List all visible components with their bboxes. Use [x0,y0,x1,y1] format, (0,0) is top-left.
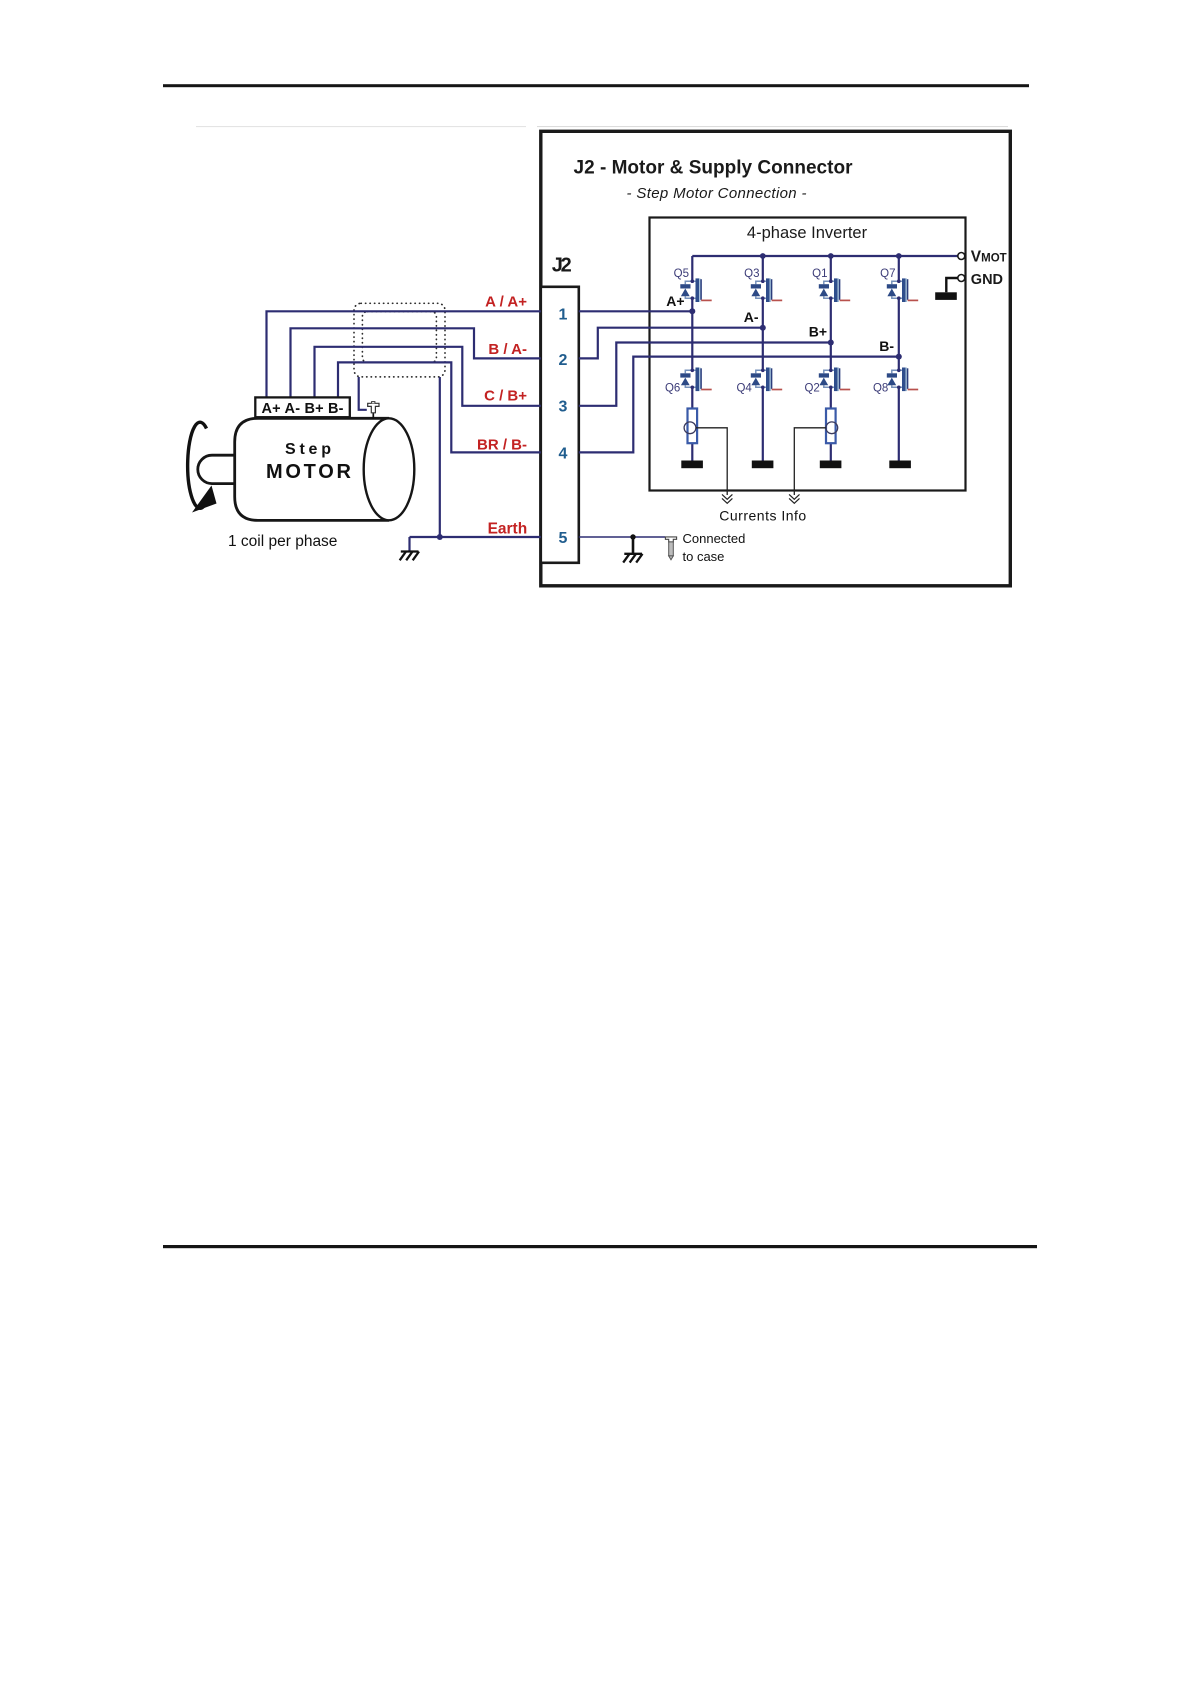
node B- [896,354,902,360]
wire pin5 to case [579,536,665,538]
wire BR/B- motor to pin4 [338,362,541,452]
svg-text:1: 1 [559,307,568,324]
wire pin1 to A+ node [579,310,693,312]
svg-text:Q8: Q8 [873,383,888,395]
arrow left [722,494,732,503]
svg-text:Q5: Q5 [674,268,689,280]
rail junction Q3 [760,253,766,259]
column Q7/Q8 [898,256,900,461]
svg-text:5: 5 [559,530,568,547]
svg-text:A / A+: A / A+ [485,294,527,311]
svg-text:Q7: Q7 [880,268,895,280]
sense resistor R2 (under Q2) [826,409,836,444]
node B+ [828,340,834,346]
ground bar Q4 [752,461,774,469]
transistor Q4 [751,368,782,392]
current tap circle left [684,422,696,434]
svg-text:MOTOR: MOTOR [266,461,352,483]
rotation arrowhead [192,486,217,513]
transistor Q6 [680,368,711,392]
svg-text:4-phase Inverter: 4-phase Inverter [747,224,868,242]
transistor Q2 [819,368,850,392]
svg-text:Q6: Q6 [665,383,680,395]
svg-text:B-: B- [879,338,894,354]
rotation arrow arc [188,422,207,508]
svg-text:Q4: Q4 [736,383,752,395]
case screw near pin5 [665,537,676,560]
outer box J2 Motor & Supply Connector [541,131,1011,586]
wire down to ground right [632,537,635,554]
svg-text:C / B+: C / B+ [484,388,527,405]
svg-text:Earth: Earth [488,520,528,537]
column Q5/Q6 [691,256,693,461]
motor shaft [198,455,236,483]
rail junction Q1 [828,253,834,259]
tap wire right [794,428,826,495]
column Q3/Q4 [762,256,764,461]
wire A/A+ motor to pin1 [267,311,541,398]
svg-text:to case: to case [683,549,725,564]
wire pin4 to B- node [579,357,899,453]
svg-text:Q3: Q3 [744,268,759,280]
transistor Q7 [887,278,918,302]
svg-text:GND: GND [971,272,1003,288]
svg-text:Currents Info: Currents Info [719,508,806,524]
J2 connector strip [541,287,579,563]
wire shield to motor case screw [359,377,367,410]
transistor Q5 [680,278,711,302]
svg-text:Step: Step [285,441,331,458]
svg-text:1 coil per phase: 1 coil per phase [228,533,337,550]
wire pin2 to A- node [579,328,763,359]
svg-text:3: 3 [559,399,568,416]
page footer rule [163,1245,1037,1248]
transistor Q3 [751,278,782,302]
svg-text:2: 2 [559,352,568,369]
GND terminal circle [958,275,965,282]
GND bar [935,292,957,300]
svg-text:A+ A- B+ B-: A+ A- B+ B- [262,401,344,417]
cable shield outer dashed box [354,303,445,377]
current tap circle right [826,422,838,434]
motor case screw [368,402,379,419]
transistor Q8 [887,368,918,392]
VMOT terminal circle [958,253,965,260]
ground symbol right [623,554,642,563]
ground symbol left [400,552,419,561]
svg-text:4: 4 [559,446,568,463]
svg-text:B / A-: B / A- [488,341,527,358]
transistor Q1 [819,278,850,302]
node A- [760,325,766,331]
page header rule [163,84,1029,87]
svg-text:A-: A- [744,309,759,325]
GND wire to bar [946,278,958,292]
wire shield earth drop [439,377,441,537]
wire earth to ground [408,537,410,552]
faint artifact line [196,126,526,127]
cable shield inner dashed box [362,312,436,363]
svg-text:J2 - Motor & Supply Connector: J2 - Motor & Supply Connector [574,158,854,179]
wire earth to pin5 [410,536,541,538]
junction pin5 earth [630,534,635,539]
svg-text:- Step Motor Connection -: - Step Motor Connection - [627,185,807,202]
wire C/B+ motor to pin3 [315,347,541,406]
svg-text:J2: J2 [552,255,572,277]
motor body [235,418,389,520]
wire pin3 to B+ node [579,343,831,406]
motor end cap [364,418,415,520]
svg-text:Q2: Q2 [804,383,819,395]
column Q1/Q2 [830,256,832,461]
ground bar Q8 [889,461,911,469]
wire B/A- motor to pin2 [291,328,541,398]
svg-text:BR / B-: BR / B- [477,437,527,454]
terminal block [255,397,349,417]
svg-text:Q1: Q1 [812,268,827,280]
sense resistor R1 (under Q6) [688,409,698,444]
VMOT rail [692,255,958,257]
svg-text:B+: B+ [809,324,827,340]
junction earth [437,534,443,540]
ground bar Q2 [820,461,842,469]
arrow right [789,494,799,503]
node A+ [689,308,695,314]
rail junction Q7 [896,253,902,259]
inverter box [650,218,966,491]
tap wire left [696,428,727,495]
svg-text:Connected: Connected [683,531,746,546]
ground bar Q6 [681,461,703,469]
